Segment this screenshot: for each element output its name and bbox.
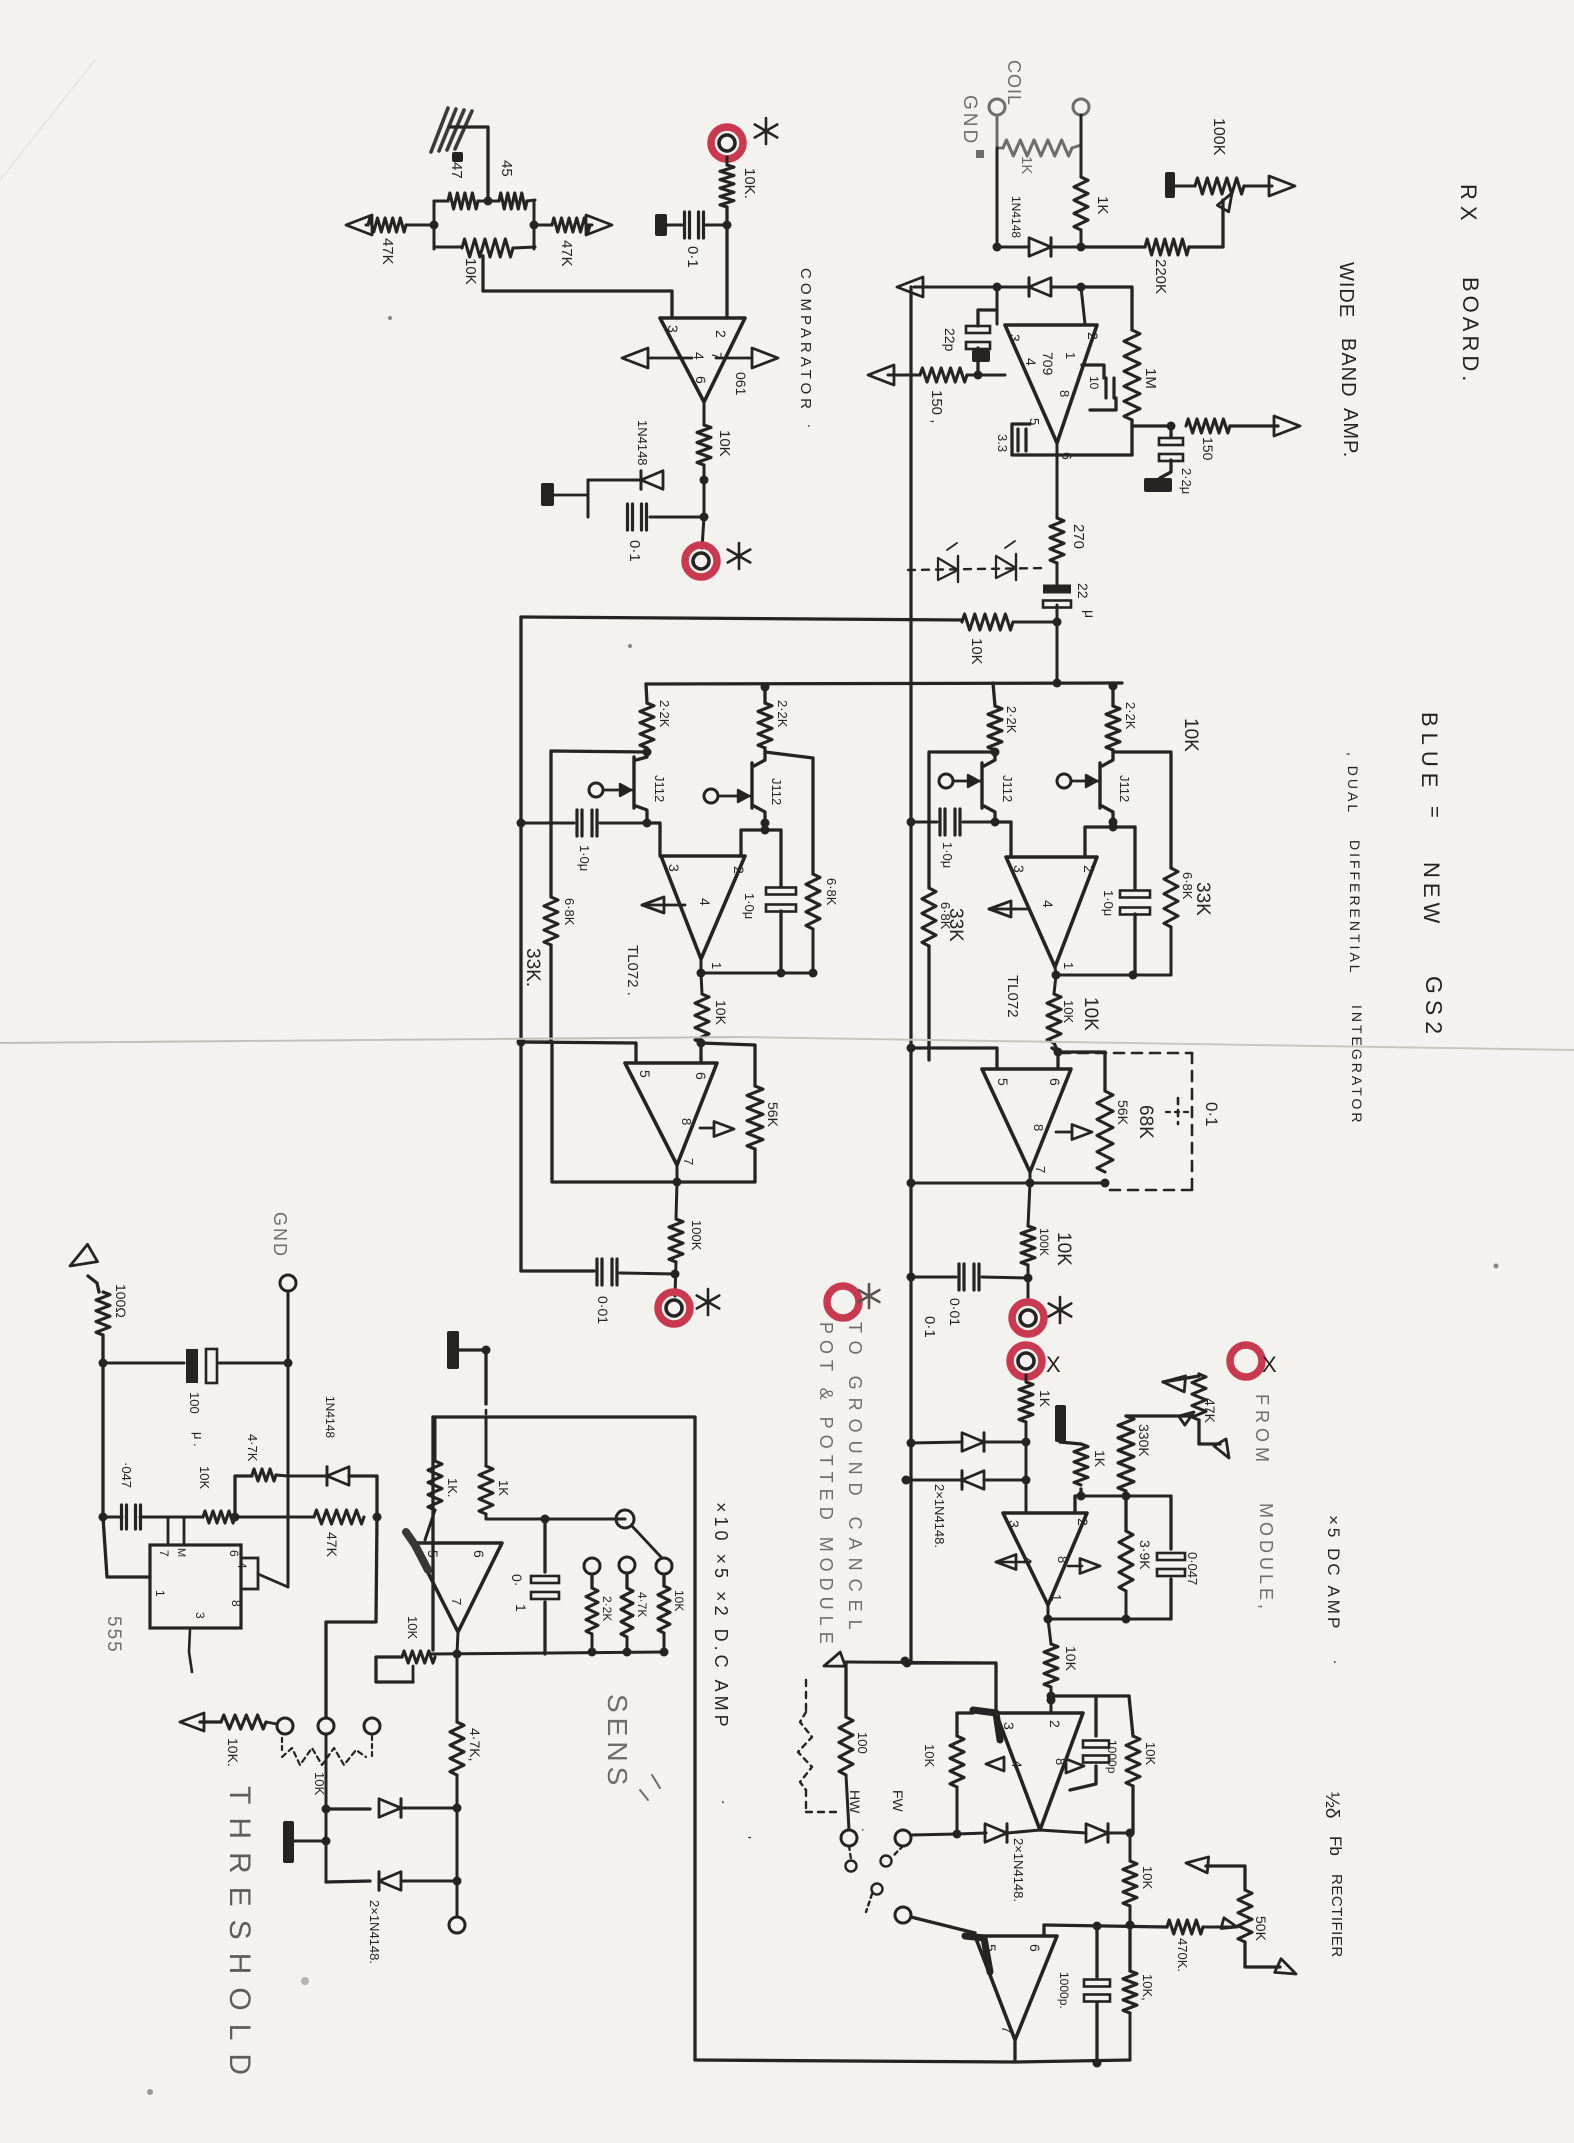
arrow V+ U5B (1066, 1759, 1084, 1773)
terminal thr C (364, 1718, 380, 1734)
blob 2.2u (1144, 478, 1172, 492)
cap 0.047 (1157, 1496, 1185, 1619)
resistor 47K (left) (368, 218, 406, 232)
svg-text:RX: RX (1456, 184, 1481, 227)
wire 22u down (1056, 605, 1059, 683)
cap 0.1 dc (531, 1519, 559, 1654)
label 1000p A (1105, 1740, 1119, 1774)
node L1 (643, 748, 652, 757)
wire blob to cap (667, 224, 682, 227)
comp cap 3.3 loop (995, 424, 1132, 455)
asterisk mark 2 (728, 543, 751, 569)
label 150 (928, 390, 945, 423)
diode clamp down (1029, 278, 1051, 296)
svg-text:10K.: 10K. (225, 1738, 241, 1767)
label 470K (1175, 1938, 1190, 1972)
svg-text:2·2μ: 2·2μ (1179, 468, 1194, 494)
label 22u (1075, 583, 1098, 618)
asterisk L out (697, 1289, 720, 1315)
label GND (pencil) (959, 95, 984, 158)
wire 50K top (1186, 1857, 1245, 1890)
label J112 R2 (1117, 775, 1132, 802)
wire apex R down (1054, 975, 1056, 994)
feedback 1M (1081, 287, 1140, 455)
wire R to pin3 (995, 822, 1011, 857)
arrow threshold (180, 1713, 204, 1731)
svg-text:1: 1 (153, 1590, 167, 1597)
switch common (616, 1510, 634, 1528)
scan speck 1 (388, 316, 392, 320)
svg-text:4: 4 (1009, 1760, 1025, 1768)
label x5 DC AMP (1324, 1515, 1347, 1664)
label 0.047 (1185, 1552, 1200, 1585)
svg-text:=: = (1423, 806, 1445, 818)
svg-text:TO GROUND CANCEL: TO GROUND CANCEL (845, 1322, 865, 1638)
wire sens out (456, 1808, 459, 1915)
svg-text:GND: GND (959, 95, 980, 146)
wire 1K down (1025, 1422, 1028, 1513)
svg-text:100K: 100K (1210, 118, 1227, 156)
svg-text:4: 4 (1023, 358, 1039, 366)
node d2r (1077, 283, 1086, 292)
svg-text:8: 8 (679, 1118, 694, 1125)
label 1N4148 clamp (1009, 196, 1023, 238)
wire 1K dc R down (485, 1514, 488, 1519)
output row x5 (1044, 1605, 1172, 1624)
svg-text:4·7K: 4·7K (635, 1592, 649, 1617)
label 100K L (689, 1220, 704, 1251)
svg-text:10K: 10K (672, 1590, 686, 1611)
node L2 top (761, 683, 770, 692)
left channel rail (519, 617, 522, 1271)
wire apex dc (457, 1632, 458, 1654)
label 100 (855, 1732, 870, 1754)
node out2 (700, 513, 709, 522)
label 33K R2 big (1192, 882, 1213, 916)
svg-text:100Ω: 100Ω (113, 1284, 129, 1318)
wire thr diode row1 (326, 1807, 370, 1810)
wire 10K hw top (957, 1713, 973, 1736)
terminal FW (895, 1830, 911, 1846)
box lower left stage (521, 1042, 755, 1182)
label COIL (pencil) (1004, 60, 1024, 106)
label 100u (187, 1392, 206, 1447)
resistor 1K x5 fb (1074, 1444, 1088, 1485)
svg-text:FW: FW (890, 1790, 906, 1813)
label 6.8K L1 (562, 898, 577, 926)
wire apex to 270 (1056, 443, 1059, 518)
wire 10K tap down and to comparator (483, 256, 672, 316)
svg-text:1·0μ: 1·0μ (742, 893, 757, 919)
op-amp U1 061 comparator (660, 318, 745, 402)
svg-text:1K: 1K (1018, 156, 1035, 174)
cap 0.01 L (597, 1259, 617, 1285)
svg-text:BLUE: BLUE (1417, 712, 1442, 793)
dashed contact HW (846, 1846, 857, 1872)
diode 1N4148 clamp up (1029, 238, 1051, 256)
pot 100K (1195, 178, 1244, 194)
svg-text:22: 22 (1075, 583, 1091, 599)
wire out2 row (911, 1917, 1167, 1936)
svg-text:6·8K: 6·8K (824, 878, 839, 906)
resistor 6.8K L1 (544, 897, 558, 945)
output row L (697, 959, 818, 978)
red pad comparator out (685, 545, 717, 577)
capacitor 0.1 comparator input (685, 212, 704, 238)
label 1 L (709, 962, 724, 969)
diode clamp B (962, 1471, 984, 1489)
wire 100R down (99, 1335, 108, 1517)
label 22p (942, 328, 958, 352)
label 1 R (1061, 962, 1076, 969)
dc amp box (433, 1417, 695, 2060)
arrow V- U5B (986, 1757, 1004, 1771)
node 22p junction (974, 371, 983, 380)
wire 1K to diode row (1080, 230, 1083, 247)
label J112 L1 (652, 775, 667, 802)
svg-text:1K: 1K (1092, 1450, 1108, 1468)
resistor 270 (1050, 518, 1064, 563)
arrow V+ U4B (1056, 1125, 1092, 1140)
resistor 10K comparator out (697, 425, 711, 465)
svg-text:4: 4 (691, 352, 707, 360)
resistor 10K rect1 (1123, 1861, 1137, 1906)
svg-text:2: 2 (1075, 1518, 1091, 1526)
svg-text:2: 2 (1081, 865, 1097, 873)
cap 1.0u R int (1109, 818, 1151, 976)
wiper arrow 47K (1179, 1412, 1194, 1425)
wire bridge right to 47K (534, 224, 552, 227)
resistor 10K fb dc (402, 1651, 435, 1663)
svg-text:0·1: 0·1 (684, 246, 701, 268)
svg-text:6: 6 (693, 1072, 709, 1080)
resistor 6.8K R1 (922, 888, 936, 946)
label 10K fb dc (405, 1616, 420, 1639)
dashed contact FW (881, 1846, 904, 1867)
svg-text:6: 6 (693, 376, 709, 384)
arrow V+ U5A (1068, 1559, 1100, 1574)
op-amp U5A x5 DC (1003, 1513, 1091, 1605)
svg-text:6: 6 (471, 1550, 487, 1558)
svg-text:50K: 50K (1253, 1916, 1269, 1942)
terminal GND 2 (280, 1275, 296, 1291)
node bridge right (530, 221, 539, 230)
arrow 100K out (1269, 176, 1295, 196)
label 2.2K L2 (775, 700, 790, 728)
svg-text:X: X (1046, 1352, 1061, 1377)
wire 330K top to pot (1126, 1414, 1189, 1417)
label 555 (103, 1616, 124, 1654)
pin stubs 555 (168, 1517, 184, 1545)
wire 50K bottom (1245, 1942, 1296, 1974)
resistor 2.2K sw (586, 1574, 598, 1634)
terminal GND (989, 99, 1005, 115)
wire to pad (702, 517, 704, 548)
resistor 1K coil damping (pencil) (997, 140, 1081, 156)
node d1l (993, 243, 1002, 252)
label 10K interstage R big (1080, 997, 1101, 1031)
wire 47K row (235, 1516, 314, 1519)
svg-text:10: 10 (1087, 376, 1101, 390)
wire apex to 100K R (1028, 1183, 1030, 1226)
main left rail (909, 287, 912, 1661)
bridge frame right (533, 201, 536, 249)
wire apex to 100K (676, 1182, 677, 1219)
label 100K (1210, 118, 1227, 156)
resistor 10K (bridge bottom) (434, 239, 535, 257)
svg-text:10K: 10K (922, 1744, 937, 1767)
label 56K R (1115, 1100, 1131, 1126)
wire d2 to node (401, 1877, 462, 1886)
svg-text:2: 2 (1047, 1720, 1063, 1728)
label RX BOARD (1456, 184, 1483, 385)
svg-text:100K: 100K (1037, 1228, 1051, 1256)
svg-text:J112: J112 (769, 778, 784, 805)
svg-text:470K.: 470K. (1175, 1938, 1190, 1972)
label 47K pot (1202, 1398, 1218, 1424)
switch arm (632, 1526, 661, 1557)
svg-text:’: ’ (739, 1836, 754, 1839)
wire 6.8K R down (927, 946, 930, 1060)
supply blob comp2 (541, 483, 554, 506)
wire 555 bump to rail (258, 1574, 288, 1587)
label 10K rect1 (1140, 1866, 1155, 1889)
svg-text:10K.: 10K. (741, 168, 758, 199)
cap 1.0u L in (577, 810, 597, 836)
left channel outer box top (521, 617, 962, 620)
switch tap 2 (619, 1557, 635, 1573)
resistor 6.8K R2 (1164, 868, 1178, 927)
output row R (1052, 967, 1172, 980)
label 2.2K sw (600, 1596, 614, 1621)
wire 555 pin3 leader (189, 1629, 192, 1672)
svg-text:33K.: 33K. (522, 948, 543, 987)
label 1K dc L (445, 1478, 460, 1498)
svg-text:, DUAL: , DUAL (1345, 752, 1361, 815)
wire right branch down (1129, 1833, 1132, 1861)
wiper 50K (1221, 1918, 1237, 1929)
wire fet2L source (741, 823, 781, 856)
pot 50K (1238, 1890, 1252, 1942)
transistor Q1 J112 (left ch) (589, 748, 647, 823)
label 6.8K R1 (938, 902, 953, 930)
resistor 47K 555 (314, 1510, 364, 1524)
svg-text:709: 709 (1040, 352, 1056, 376)
wire 220K branch (1081, 245, 1145, 248)
wire blob to 100K (1175, 185, 1195, 188)
label 47K 555 (324, 1532, 340, 1558)
label 709 (1040, 352, 1056, 376)
svg-text:POT & POTTED MODULE: POT & POTTED MODULE (816, 1322, 836, 1650)
node 10K row (1053, 618, 1062, 627)
svg-text:3: 3 (665, 325, 681, 333)
node d1r (1077, 243, 1086, 252)
wire 100K to pad (671, 1262, 680, 1296)
svg-text:0·1: 0·1 (626, 540, 643, 562)
IC U7 555 (150, 1545, 258, 1628)
svg-text:3: 3 (193, 1612, 207, 1619)
svg-text:1: 1 (1063, 352, 1078, 359)
wire clamp B (902, 1476, 1031, 1485)
svg-text:8: 8 (229, 1600, 243, 1607)
svg-text:0·: 0· (509, 1574, 525, 1586)
resistor 2.2K L1 (640, 684, 654, 748)
resistor 45 (bridge top right) (488, 193, 535, 209)
switch tap 1 (584, 1558, 600, 1574)
asterisk R out (1049, 1297, 1072, 1323)
ground symbol (hatched earth) top of bridge (431, 108, 472, 152)
wire 4.7K loop (235, 1476, 252, 1517)
red pad R out (1012, 1302, 1044, 1334)
label 1K (pencil) (1018, 156, 1035, 174)
wire diode node to cap node (703, 480, 706, 517)
svg-text:THRESHOLD: THRESHOLD (223, 1786, 256, 2088)
integrator top rail (646, 683, 1122, 684)
wire coil down (1080, 115, 1083, 177)
wire L to pin3 (647, 823, 660, 856)
svg-text:6: 6 (227, 1550, 241, 1557)
label 10K hw (922, 1744, 937, 1767)
wire 100K to arrow (1244, 185, 1272, 188)
label FW (890, 1790, 906, 1813)
label 10K thr (225, 1738, 241, 1767)
svg-text:56K: 56K (765, 1102, 781, 1128)
svg-text:3·9K: 3·9K (1137, 1540, 1153, 1570)
svg-text:DIFFERENTIAL: DIFFERENTIAL (1347, 840, 1363, 976)
svg-text:J112: J112 (1117, 775, 1132, 802)
wire cap row R (907, 818, 1000, 827)
resistor 10K sw (658, 1574, 670, 1633)
label 10K bridge (462, 258, 479, 285)
arrow V- comparator (622, 348, 692, 368)
bridge frame left (433, 201, 436, 249)
svg-text:1000p.: 1000p. (1057, 1972, 1071, 2009)
label 50K (1253, 1916, 1269, 1942)
resistor 1K dc L (428, 1461, 442, 1510)
wire diode A to apex (1007, 1830, 1040, 1833)
red pad L out (658, 1292, 690, 1324)
wire 220K right up (1189, 200, 1223, 247)
svg-text:330K: 330K (1136, 1424, 1152, 1457)
resistor 10K interstage L (695, 994, 709, 1043)
svg-text:0·01: 0·01 (595, 1296, 611, 1324)
wire node to row2 (1050, 1700, 1053, 1713)
svg-text:1: 1 (1061, 962, 1076, 969)
wire 10K to 22u node (1013, 621, 1057, 624)
label 0.1 R (921, 1316, 938, 1338)
label TO GROUND CANCEL (816, 1284, 879, 1650)
svg-text:1K: 1K (1037, 1390, 1053, 1408)
node out (700, 476, 709, 485)
svg-text:555: 555 (103, 1616, 124, 1654)
op-amp U4A TL072 (right) (1006, 857, 1097, 967)
svg-text:22p: 22p (942, 328, 958, 352)
label 10K x5 (1063, 1646, 1079, 1672)
comp cap 10 (1082, 365, 1116, 410)
svg-text:MODULE,: MODULE, (1256, 1503, 1276, 1613)
resistor 56K L (747, 1086, 763, 1149)
svg-text:1N4148: 1N4148 (1009, 196, 1023, 238)
svg-text:10K: 10K (1143, 1742, 1158, 1765)
label 68K (1135, 1105, 1156, 1139)
node R1 (991, 748, 1000, 757)
label J112 L2 (769, 778, 784, 805)
svg-text:061: 061 (733, 372, 749, 396)
label 150 out (1200, 437, 1216, 461)
svg-text:.: . (805, 424, 821, 428)
terminal COIL (1073, 99, 1089, 115)
svg-text:10K: 10K (197, 1466, 212, 1489)
svg-text:NEW: NEW (1419, 862, 1444, 928)
label 2x1N4148 B (1011, 1838, 1026, 1902)
svg-text:TL072 .: TL072 . (624, 945, 641, 996)
svg-text:μ .: μ . (191, 1432, 206, 1447)
bold wedge U5B (973, 1710, 1000, 1740)
svg-text:150 ,: 150 , (928, 390, 945, 423)
wire to node2 (1126, 1906, 1135, 1930)
blob under 22p (972, 350, 990, 362)
svg-text:2·2K: 2·2K (657, 700, 672, 728)
op-amp U8 DC amp (413, 1543, 502, 1632)
svg-text:7: 7 (157, 1550, 171, 1557)
label 100R (113, 1284, 129, 1318)
wire 6.8K L down (549, 945, 552, 1042)
resistor 3.9K (1119, 1496, 1133, 1619)
diode clamp A (962, 1433, 984, 1451)
label 10K fb A (1143, 1742, 1158, 1765)
svg-text:10K: 10K (405, 1616, 420, 1639)
svg-text:M: M (175, 1548, 187, 1557)
resistor 2.2K R1 (988, 683, 1002, 750)
diode rect A (985, 1824, 1007, 1842)
svg-text:100: 100 (187, 1392, 202, 1414)
label 0.1 dashed (1202, 1102, 1221, 1127)
label 1K x5 fb (1092, 1450, 1108, 1468)
svg-text:270: 270 (1070, 524, 1087, 549)
wire 47K node to threshold pot (326, 1517, 377, 1718)
svg-text:4·7K: 4·7K (245, 1434, 260, 1462)
label .047 (119, 1462, 134, 1488)
svg-text:47: 47 (448, 162, 465, 179)
cap 22u electrolytic (1043, 585, 1071, 608)
svg-text:COMPARATOR: COMPARATOR (797, 268, 814, 413)
row2 x5 (1047, 1692, 1130, 1701)
svg-text:3: 3 (666, 864, 682, 872)
wire rail node row (846, 1662, 995, 1663)
label 2.2K R1 (1004, 706, 1019, 734)
diode rect B (1086, 1824, 1108, 1842)
label 1K x5 (1037, 1390, 1053, 1408)
resistor 4.7K sw (621, 1573, 633, 1637)
resistor 150 (pin4) (920, 368, 967, 382)
svg-text:INTEGRATOR: INTEGRATOR (1349, 1005, 1365, 1126)
svg-text:X: X (1262, 1352, 1277, 1377)
label 2.2K R2 (1123, 702, 1138, 730)
resistor 10K x5 (1044, 1644, 1058, 1687)
arrow V- U4A (989, 901, 1028, 917)
wire 0.01 row R (907, 1273, 1029, 1282)
op-amp U3A TL072 (left) (661, 856, 747, 959)
svg-text:COIL: COIL (1004, 60, 1024, 106)
terminal HW (841, 1830, 857, 1846)
output row R2 (907, 1179, 1110, 1188)
resistor 2.2K R2 (1106, 683, 1120, 750)
label 10K injection (968, 638, 985, 665)
svg-text:5: 5 (425, 1550, 441, 1558)
label 10K R big (1053, 1232, 1074, 1266)
svg-text:10K: 10K (713, 1000, 729, 1026)
svg-text:Fb: Fb (1326, 1836, 1345, 1856)
